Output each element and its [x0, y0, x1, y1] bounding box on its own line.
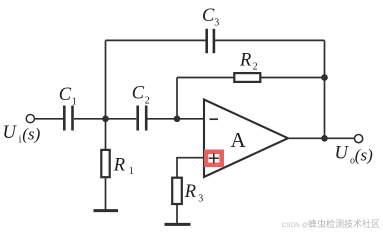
svg-text:R: R — [184, 182, 196, 202]
output junction dot — [321, 135, 328, 142]
wire top C3 right — [215, 39, 324, 41]
svg-text:C: C — [59, 85, 72, 105]
op-amp U1 triangle — [204, 100, 288, 178]
svg-text:U: U — [3, 123, 18, 143]
wire R2 right — [260, 77, 324, 79]
wire C1 to node A — [74, 118, 106, 120]
input terminal circle — [26, 115, 34, 123]
svg-text:i: i — [19, 134, 22, 145]
node B junction dot — [174, 116, 181, 123]
svg-text:R: R — [239, 51, 251, 71]
svg-text:2: 2 — [145, 95, 150, 106]
wire R3 to ground — [176, 205, 178, 224]
wire node A to C2 — [106, 118, 137, 120]
non-inverting input wire — [177, 158, 204, 177]
svg-text:R: R — [113, 156, 125, 176]
wire node B to op-amp inverting input — [177, 118, 204, 120]
wire node B up to R2 branch — [176, 78, 178, 119]
wire R1 to ground — [105, 178, 107, 210]
resistor R3 — [172, 178, 182, 204]
wire feedback vertical to output — [324, 40, 326, 138]
wire node A down to R1 — [105, 119, 107, 150]
svg-text:3: 3 — [198, 194, 203, 205]
capacitor C2 — [138, 106, 147, 131]
capacitor C3 — [207, 29, 214, 53]
svg-text:U: U — [335, 144, 350, 164]
svg-text:2: 2 — [253, 62, 258, 73]
node A junction dot — [102, 116, 109, 123]
svg-text:C: C — [202, 6, 215, 26]
red highlight box on plus input — [204, 150, 224, 168]
resistor R1 — [101, 150, 109, 177]
wire R2 left — [177, 77, 234, 79]
svg-text:(s): (s) — [355, 146, 373, 165]
svg-text:3: 3 — [214, 18, 219, 29]
svg-text:1: 1 — [129, 166, 134, 177]
capacitor C1 — [64, 106, 72, 131]
resistor R2 — [234, 73, 260, 82]
svg-text:A: A — [231, 128, 247, 152]
wire node A up to C3 branch — [105, 40, 107, 118]
wire C2 to node B — [147, 118, 177, 120]
wire top C3 left — [106, 39, 206, 41]
ground (R3) — [165, 223, 191, 226]
op-amp minus sign — [210, 118, 219, 120]
watermark — [0, 217, 380, 230]
svg-text:1: 1 — [72, 96, 77, 107]
svg-text:(s): (s) — [22, 125, 40, 144]
svg-text:C: C — [132, 84, 145, 104]
ground (R1) — [94, 209, 119, 212]
output wire from op-amp — [288, 137, 354, 139]
op-amp plus sign — [209, 153, 219, 163]
output terminal circle — [355, 135, 363, 143]
junction dot R2/C3 vertical — [321, 74, 328, 81]
wire input to C1 — [35, 118, 63, 120]
